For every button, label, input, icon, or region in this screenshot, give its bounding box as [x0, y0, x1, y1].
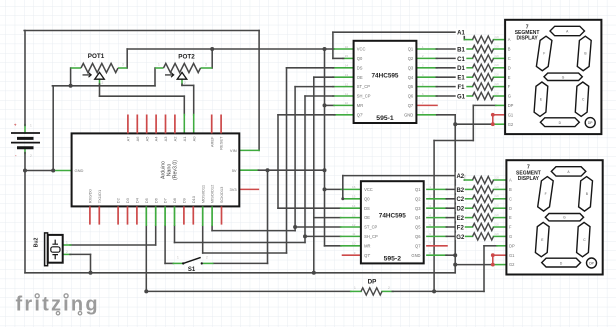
node G2 [456, 233, 465, 240]
wire A1 rail [333, 31, 464, 33]
node B2 [456, 186, 465, 193]
wire MR1 link [325, 104, 335, 106]
pin DP1 green stub [496, 104, 505, 106]
svg-text:D10: D10 [191, 195, 196, 203]
svg-text:220: 220 [495, 63, 500, 67]
wire Q1-1 green stub [416, 48, 437, 50]
wire 5V drop to S1 [267, 170, 269, 263]
wire resistor to display1 pin [494, 67, 506, 69]
wire POT1 wiper green stub [99, 79, 101, 84]
wire seg E2 link [446, 217, 464, 219]
wire battery- to bottom rail [24, 171, 26, 273]
wire D8 rail [175, 242, 306, 244]
svg-text:Q1: Q1 [408, 47, 414, 52]
resistor R-G2 220 ohm [473, 233, 494, 240]
wire Q3-2 green stub [427, 207, 447, 209]
wire MR2 link [325, 245, 342, 247]
svg-text:Bu2: Bu2 [34, 237, 40, 247]
pin Q7-1 red stub (n.c.) [416, 104, 437, 106]
svg-text:POT1: POT1 [88, 53, 105, 60]
wire commons vertical [454, 115, 456, 265]
node D2 [456, 205, 465, 212]
pin D7 [164, 206, 166, 226]
wire ST_CP vertical [294, 87, 296, 231]
potentiometer POT2 [155, 54, 212, 85]
wire SH_CP1 green stub [333, 95, 354, 97]
wire resistor to display1 pin [494, 86, 506, 88]
wire DP1 vertical [433, 141, 435, 292]
pin G1-1 red stub [493, 114, 505, 116]
svg-text:G1: G1 [457, 94, 466, 100]
pin SCK/D13 [221, 206, 223, 224]
svg-text:1: 1 [74, 63, 76, 67]
svg-text:220: 220 [495, 54, 500, 58]
svg-text:A4: A4 [154, 136, 159, 142]
wire DS2 link [278, 207, 341, 209]
svg-text:1: 1 [66, 241, 68, 245]
wire ST_CP1 green stub [333, 86, 354, 88]
wire Q7s1 vertical [277, 115, 279, 208]
svg-text:14: 14 [352, 204, 356, 208]
wire Q2-2 green stub [427, 198, 447, 200]
svg-text:E: E [508, 75, 511, 80]
wire resistor to display1 pin [494, 76, 506, 78]
svg-text:12: 12 [345, 82, 349, 86]
node A2 [456, 172, 465, 179]
battery BAT1 [11, 123, 40, 159]
svg-text:SH_CP: SH_CP [357, 94, 371, 99]
svg-text:220: 220 [495, 213, 500, 217]
svg-text:A1: A1 [457, 31, 465, 37]
wire seg G1 link [436, 95, 464, 97]
wire Q5-2 green stub [427, 226, 447, 228]
svg-text:G: G [562, 75, 565, 79]
pin Q7'-2 red stub (n.c.) [343, 254, 361, 256]
wire D8 drop [174, 226, 176, 243]
svg-text:14: 14 [345, 64, 349, 68]
wire Q0-2 riser [342, 176, 344, 199]
wire resistor to display2 pin [494, 226, 507, 228]
pin Q7-2 red stub (n.c.) [427, 245, 447, 247]
arduino nano U1 [72, 115, 240, 227]
svg-text:2: 2 [388, 286, 390, 290]
svg-text:TX1/D1: TX1/D1 [97, 189, 102, 203]
svg-text:220: 220 [495, 35, 500, 39]
pin A6 [136, 115, 138, 134]
svg-text:2: 2 [102, 81, 104, 85]
wire seg B2 link [446, 188, 464, 190]
wire battery + green stub [24, 125, 26, 133]
wire seg C2 link [446, 198, 464, 200]
node C2 [456, 195, 465, 202]
svg-text:1: 1 [30, 124, 32, 128]
svg-text:15: 15 [352, 195, 356, 199]
svg-text:Q1: Q1 [415, 187, 421, 192]
svg-text:SCK/D13: SCK/D13 [219, 186, 224, 203]
wire bottom GND rail [25, 272, 455, 274]
svg-text:+: + [14, 123, 17, 128]
svg-text:12: 12 [352, 223, 356, 227]
wire OE1 green stub [333, 76, 354, 78]
pin TX1/D1 [98, 206, 100, 224]
wire D12 drop [211, 226, 213, 231]
wire POT2 right riser [211, 49, 213, 68]
svg-text:G2: G2 [456, 235, 465, 241]
resistor R-B1 220 ohm [473, 45, 494, 52]
svg-text:3: 3 [122, 63, 124, 67]
svg-text:F1: F1 [457, 85, 465, 91]
wire GND1 link [437, 114, 456, 116]
svg-text:D5: D5 [144, 197, 149, 203]
wire resistor to display1 pin [494, 57, 506, 59]
junction node 5V rail/vertical [323, 168, 327, 172]
pin D3 [127, 206, 129, 224]
svg-text:G1: G1 [508, 112, 514, 117]
svg-text:3: 3 [205, 63, 207, 67]
svg-text:GND: GND [404, 112, 413, 117]
wire resistor to display1 pin [494, 95, 506, 97]
svg-text:Q3: Q3 [415, 206, 421, 211]
svg-text:DP: DP [509, 243, 515, 248]
wire A1 resistor stub [464, 39, 472, 41]
wire A2 step [463, 176, 465, 180]
svg-text:B1: B1 [457, 47, 465, 53]
svg-text:F: F [543, 52, 545, 56]
junction node DP rail branch [432, 289, 436, 293]
wire GND2 link [446, 254, 455, 256]
wire DP resistor left stub [351, 290, 361, 292]
node D1 [456, 64, 467, 71]
wire Q0-1 link [333, 57, 344, 59]
svg-text:595-2: 595-2 [384, 255, 402, 262]
wire SH_CP1 link [305, 95, 334, 97]
wire DP1 link [473, 104, 495, 106]
resistor R-D2 220 ohm [473, 205, 494, 212]
wire A0 riser [193, 85, 195, 115]
wire G2-2 rail [455, 264, 493, 266]
resistor R-C2 220 ohm [473, 195, 494, 202]
svg-text:220: 220 [495, 185, 500, 189]
wire ST_CP1 link [295, 86, 334, 88]
junction node ST_CP2 tap [293, 225, 297, 229]
junction node D5/DP rail [144, 289, 148, 293]
wire Q5-1 green stub [416, 86, 437, 88]
wire VCC2 link [325, 188, 342, 190]
wire resistor to display1 pin [494, 48, 506, 50]
svg-text:Q0: Q0 [364, 196, 370, 201]
wire POT1 right riser [126, 49, 128, 68]
svg-text:A5: A5 [144, 136, 149, 142]
wire DS1 link [287, 67, 334, 69]
svg-text:G: G [508, 94, 511, 99]
pin D5 [145, 206, 147, 226]
svg-text:B: B [509, 187, 512, 192]
svg-text:Q7: Q7 [408, 103, 414, 108]
svg-text:D8: D8 [172, 197, 177, 203]
svg-text:GND: GND [75, 168, 84, 173]
junction node VCC1/5V [323, 47, 327, 51]
wire OE1 link [314, 76, 334, 78]
svg-text:11: 11 [345, 92, 348, 96]
svg-text:DS: DS [357, 65, 363, 70]
wire POT1 left drop [70, 68, 72, 86]
pin A5 [146, 115, 148, 134]
svg-text:G2: G2 [509, 262, 515, 267]
svg-text:595-1: 595-1 [376, 115, 394, 122]
pin G2-2 green stub [493, 264, 507, 266]
wire battery- down [24, 153, 26, 171]
7-segment display DISP1 [505, 20, 601, 134]
wire resistor to display2 pin [494, 217, 507, 219]
svg-text:RESET: RESET [219, 136, 224, 150]
junction node SH_CP2 tap [303, 234, 307, 238]
wire MR2 green stub [341, 245, 361, 247]
pin D9 [183, 206, 185, 224]
svg-text:A7: A7 [126, 136, 131, 142]
node E2 [456, 214, 465, 221]
wire SH_CP vertical [304, 96, 306, 243]
wire D7 drop [164, 226, 166, 263]
wire G1-1 red jog [492, 115, 494, 124]
svg-text:15: 15 [345, 54, 349, 58]
svg-text:VCC: VCC [364, 187, 373, 192]
junction node 5V/S1 branch [266, 168, 270, 172]
wire resistor to display2 pin [494, 207, 507, 209]
svg-text:A: A [508, 37, 511, 42]
junction node Q0-2 bend [341, 197, 344, 200]
wire DP resistor right stub [382, 290, 393, 292]
svg-text:C1: C1 [457, 57, 465, 63]
wire VIN drop [258, 31, 260, 151]
svg-text:E1: E1 [457, 76, 465, 82]
node G1 [456, 92, 467, 99]
wire pot GND rail [52, 85, 155, 87]
svg-text:220: 220 [495, 73, 500, 77]
wire POT2 wiper drop [181, 84, 183, 85]
wire Q0-2 green stub [343, 198, 361, 200]
wire seg D1 link [436, 67, 464, 69]
svg-text:DS: DS [364, 206, 370, 211]
svg-text:OE: OE [357, 75, 363, 80]
svg-text:G: G [509, 234, 512, 239]
svg-text:MOSI/D11: MOSI/D11 [200, 184, 205, 203]
svg-text:220: 220 [495, 232, 500, 236]
node A1 [456, 29, 467, 36]
svg-text:D4: D4 [135, 197, 140, 203]
svg-text:D3: D3 [125, 197, 130, 203]
svg-text:Q7: Q7 [415, 243, 421, 248]
wire D11 rail [203, 252, 287, 254]
pin RX0/D0 [89, 206, 91, 224]
pin A7 [127, 115, 129, 134]
svg-text:13: 13 [352, 213, 356, 217]
wire battery - green stub [24, 147, 26, 153]
junction red node G1-2 [491, 253, 495, 257]
svg-text:Q6: Q6 [408, 94, 414, 99]
svg-text:D: D [508, 65, 511, 70]
svg-text:Q7': Q7' [364, 253, 370, 258]
wire seg E1 link [436, 76, 464, 78]
wire VIN green stub [239, 149, 259, 151]
svg-text:E: E [509, 215, 512, 220]
junction node GND tap [51, 169, 55, 173]
svg-text:RX0/D0: RX0/D0 [88, 189, 93, 204]
svg-text:220: 220 [495, 175, 500, 179]
svg-text:AREF: AREF [209, 136, 214, 147]
wire 5V vertical MR1-MR2 [324, 49, 326, 246]
svg-text:ST_CP: ST_CP [364, 225, 377, 230]
resistor R-F1 220 ohm [473, 83, 494, 90]
wire SH_CP2 link [305, 235, 341, 237]
svg-text:C: C [509, 196, 512, 201]
wire seg B1 link [436, 48, 464, 50]
svg-text:MR: MR [364, 243, 370, 248]
wire buzzer - link [70, 253, 91, 255]
svg-text:220: 220 [495, 204, 500, 208]
svg-text:A: A [509, 178, 512, 183]
svg-text:C2: C2 [456, 197, 464, 203]
wire resistor to display2 pin [494, 179, 507, 181]
svg-text:D9: D9 [182, 197, 187, 203]
wire Q4-1 green stub [416, 76, 437, 78]
svg-text:D2: D2 [456, 207, 464, 213]
svg-text:A2: A2 [456, 174, 464, 180]
wire seg B2 resistor stub [464, 188, 472, 190]
junction node buzzer-/GND rail [89, 271, 93, 275]
svg-text:Q5: Q5 [408, 84, 414, 89]
junction node OE/GND rail [312, 271, 316, 275]
svg-text:1: 1 [158, 63, 160, 67]
wire resistor to display2 pin [494, 235, 507, 237]
svg-text:220: 220 [495, 91, 500, 95]
svg-text:220: 220 [495, 82, 500, 86]
pin D6 [155, 206, 157, 226]
svg-text:2: 2 [66, 250, 68, 254]
wire D12 rail [212, 230, 295, 232]
svg-text:DP: DP [508, 103, 514, 108]
svg-text:10: 10 [345, 101, 349, 105]
pin A3 [165, 115, 167, 134]
wire seg F1 link [436, 86, 464, 88]
wire POT2 left drop [154, 68, 156, 86]
wire GND2 green stub [427, 254, 447, 256]
wire seg D2 link [446, 207, 464, 209]
wire seg F1 resistor stub [464, 86, 472, 88]
wire DS1 vertical [286, 68, 288, 253]
wire OE2 link [314, 217, 341, 219]
svg-text:1: 1 [354, 286, 356, 290]
wire resistor to display1 pin [494, 39, 506, 41]
svg-text:MR: MR [357, 103, 363, 108]
wire seg E2 resistor stub [464, 217, 472, 219]
wire seg G1 resistor stub [464, 95, 472, 97]
wire resistor to display2 pin [494, 198, 507, 200]
wire buzzer - green stub [63, 253, 71, 255]
wire Q4-2 green stub [427, 217, 447, 219]
wire 5V green stub [239, 169, 258, 171]
wire Q0-1 green stub [343, 57, 354, 59]
svg-text:A3: A3 [163, 136, 168, 142]
svg-text:Q6: Q6 [415, 234, 421, 239]
svg-text:16: 16 [352, 185, 356, 189]
junction node GND2 tap [453, 253, 457, 257]
pin D2 [117, 206, 119, 224]
resistor R-A2 220 ohm [473, 176, 494, 183]
svg-text:E2: E2 [457, 216, 465, 222]
switch S1 [173, 256, 214, 274]
svg-text:74HC595: 74HC595 [379, 213, 406, 220]
wire seg C1 link [436, 57, 464, 59]
svg-text:B2: B2 [456, 188, 464, 194]
wire Q1-2 green stub [427, 188, 447, 190]
wire OE vertical to GND [313, 77, 315, 273]
junction node MR1/5V [323, 103, 327, 107]
svg-text:DISPLAY: DISPLAY [518, 176, 540, 182]
resistor R-A1 220 ohm [473, 36, 494, 43]
wire DP rail left [146, 290, 350, 292]
pin A2 [174, 115, 176, 134]
wire Q2-1 green stub [416, 57, 437, 59]
wire OE2 green stub [341, 217, 361, 219]
wire POT1 wiper drop [99, 84, 101, 96]
svg-text:MISO/D12: MISO/D12 [210, 184, 215, 203]
wire Q7s1 green stub [334, 114, 354, 116]
svg-text:D1: D1 [457, 66, 465, 72]
svg-text:A2: A2 [173, 136, 178, 142]
node C1 [456, 55, 467, 62]
svg-text:1: 1 [177, 256, 179, 260]
svg-text:D7: D7 [163, 197, 168, 203]
resistor R-F2 220 ohm [473, 223, 494, 230]
svg-text:Q2: Q2 [415, 196, 421, 201]
node B1 [456, 45, 467, 52]
svg-text:DP: DP [588, 121, 593, 125]
wire seg B1 resistor stub [464, 48, 472, 50]
wire DP2 riser [483, 246, 485, 292]
buzzer Bu2 [34, 233, 69, 266]
wire MR1 green stub [334, 104, 354, 106]
svg-text:DP: DP [589, 262, 594, 266]
wire A1 step [463, 32, 465, 39]
wire D5 drop [145, 226, 147, 291]
wire 5V pot rail to VCC1 [127, 48, 334, 50]
wire A1 riser [183, 96, 185, 115]
wire buzzer rail [70, 244, 156, 246]
wire VCC2 green stub [341, 188, 361, 190]
svg-text:A0: A0 [191, 136, 196, 142]
svg-text:11: 11 [352, 232, 355, 236]
svg-text:A1: A1 [182, 136, 187, 142]
svg-text:OE: OE [364, 215, 370, 220]
wire VCC1 green stub [334, 48, 353, 50]
wire ST_CP2 link [295, 226, 341, 228]
svg-text:2: 2 [184, 81, 186, 85]
pin AREF [211, 115, 213, 134]
pin MOSI/D11 [202, 206, 204, 226]
svg-text:220: 220 [495, 44, 500, 48]
wire GND link [25, 170, 53, 172]
svg-text:G1: G1 [509, 253, 515, 258]
wire GND riser to pot rail [52, 86, 54, 171]
wire ST_CP2 green stub [341, 226, 361, 228]
junction node battery-/GND [23, 169, 27, 173]
wire DP1 riser [472, 105, 474, 140]
pin RESET [220, 115, 222, 134]
wire seg F2 resistor stub [464, 226, 472, 228]
junction red node G1-1 [491, 113, 495, 117]
svg-text:D: D [509, 206, 512, 211]
pin D10 [192, 206, 194, 224]
